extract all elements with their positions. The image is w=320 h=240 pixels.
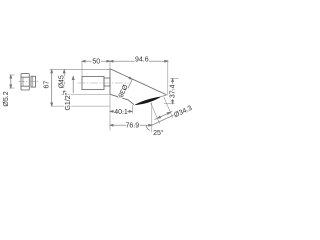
svg-text:G1/2": G1/2" xyxy=(65,92,72,110)
svg-text:94.6: 94.6 xyxy=(135,56,149,63)
svg-text:25°: 25° xyxy=(153,129,164,137)
svg-text:50: 50 xyxy=(92,58,100,65)
svg-text:76.9: 76.9 xyxy=(125,122,139,129)
svg-text:37.4: 37.4 xyxy=(170,84,177,98)
svg-text:Ø5.2: Ø5.2 xyxy=(3,91,10,106)
svg-text:67: 67 xyxy=(44,81,51,89)
svg-text:Ø34.3: Ø34.3 xyxy=(173,105,193,119)
svg-text:40.1: 40.1 xyxy=(114,109,128,116)
svg-text:Ø38: Ø38 xyxy=(116,83,128,98)
svg-text:Ø45: Ø45 xyxy=(58,75,65,88)
